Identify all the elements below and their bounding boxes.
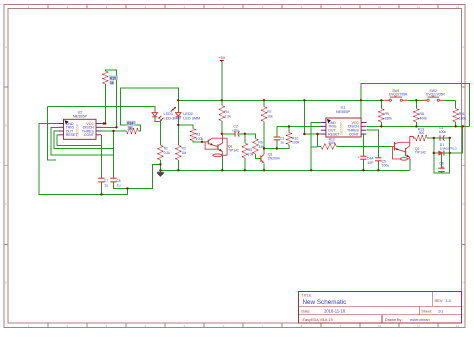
svg-text:R3: R3 <box>196 132 200 136</box>
junction at 105.3,123.5 <box>104 122 106 124</box>
svg-text:1N4007RLG: 1N4007RLG <box>440 146 458 150</box>
wire C7 column below CONT loop <box>100 146 102 179</box>
svg-text:1k: 1k <box>128 127 132 131</box>
wire top power rail <box>178 99 384 101</box>
capacitor C3 <box>274 136 280 138</box>
wire U1 THRES to C5 column <box>366 130 378 158</box>
wire D1 left vertical <box>434 138 439 153</box>
svg-text:R6: R6 <box>258 140 262 144</box>
svg-text:12: 12 <box>456 5 460 9</box>
resistor R10 <box>287 133 292 145</box>
wire C8 bottom lead <box>114 164 161 188</box>
wire R10 top lead <box>288 127 290 133</box>
svg-text:0.2k: 0.2k <box>164 151 171 155</box>
svg-text:R14: R14 <box>127 122 133 126</box>
junction at 178.3,170.3 <box>177 169 179 171</box>
svg-text:100k: 100k <box>292 141 300 145</box>
resistor R14 <box>126 129 138 134</box>
svg-text:1.0: 1.0 <box>446 298 452 303</box>
junction at 264,148.5 <box>263 147 265 149</box>
wire U1 TRIG row <box>277 126 323 128</box>
svg-text:10: 10 <box>378 324 382 328</box>
wire R5 top lead <box>244 134 246 143</box>
svg-text:CONT: CONT <box>349 132 360 136</box>
svg-text:A: A <box>462 45 464 49</box>
svg-text:2018-11-18: 2018-11-18 <box>324 309 346 314</box>
resistor R13 300 <box>415 136 427 141</box>
svg-text:RESET: RESET <box>328 132 341 136</box>
svg-text:EVQ22705R: EVQ22705R <box>389 93 408 97</box>
capacitor C7 <box>98 177 104 179</box>
junction at 101.4,194.5 <box>100 193 102 195</box>
junction at 317.5,134 <box>316 133 318 135</box>
wire R4 column from rail <box>221 100 223 105</box>
svg-text:C7: C7 <box>104 179 108 183</box>
wire R8 leads <box>415 100 417 108</box>
wire C3 bottom lead <box>276 140 278 149</box>
wire R12 feed vertical <box>318 134 322 147</box>
svg-text:EVQ22705R: EVQ22705R <box>426 93 445 97</box>
wire R3 bottom into Q1 base <box>193 141 204 142</box>
svg-text:2N2904: 2N2904 <box>268 156 280 160</box>
wire U2 DISCH stub extension <box>101 126 117 128</box>
junction at 304.4,100.3 <box>303 99 305 101</box>
resistor R1 <box>158 145 163 160</box>
wire R11 bottom lead <box>455 122 457 126</box>
svg-text:1u: 1u <box>104 183 108 187</box>
junction at 103.7,123.5 <box>103 122 105 124</box>
svg-text:300: 300 <box>419 131 425 135</box>
wire U1 GND row <box>311 123 323 171</box>
wire Q3 emitter to rail <box>263 164 265 171</box>
svg-text:R1: R1 <box>164 146 168 150</box>
wire U2 THRES row to R14 <box>101 130 126 132</box>
svg-text:1u: 1u <box>440 165 444 169</box>
svg-text:R15: R15 <box>110 76 116 80</box>
wire C5 bottom to rail <box>377 161 379 171</box>
ground symbol <box>157 170 164 176</box>
resistor R7 <box>262 107 267 122</box>
wire C6 box <box>434 153 450 173</box>
wire bypass loop up right <box>361 84 470 127</box>
resistor R5 <box>242 143 247 158</box>
junction at 178.3,124.9 <box>177 124 179 126</box>
wire R7 bottom to Q3 collector node <box>263 122 265 155</box>
junction at 455.7,126.4 <box>455 125 457 127</box>
junction at 264,170.3 <box>263 169 265 171</box>
svg-text:R9: R9 <box>385 112 389 116</box>
resistor R2 <box>176 145 181 160</box>
op-amp timer U2 NE555P <box>64 119 97 139</box>
svg-text:RESET: RESET <box>66 133 79 137</box>
svg-text:1M: 1M <box>182 151 187 155</box>
wire C2 row right to R6 top <box>239 134 255 139</box>
svg-text:TIP142: TIP142 <box>415 150 426 154</box>
svg-text:R11: R11 <box>459 112 465 116</box>
capacitor C6 <box>438 167 444 169</box>
svg-text:1k: 1k <box>110 81 114 85</box>
wire R9 bottom lead <box>380 122 382 126</box>
wire R2 bottom to rail <box>177 160 179 170</box>
junction at 221.8,100.3 <box>221 99 223 101</box>
wire Q2 emitter to rail <box>409 159 411 170</box>
power flag +5V <box>221 61 223 63</box>
capacitor C8 <box>110 177 116 179</box>
junction at 276.8,148.5 <box>276 147 278 149</box>
wire R12 link <box>311 146 317 148</box>
junction at 244.8,170.3 <box>244 169 246 171</box>
junction at 416.3,100.3 <box>415 99 417 101</box>
junction at 160.4,170.3 <box>159 169 161 171</box>
svg-text:LED 3MM: LED 3MM <box>183 116 200 120</box>
svg-text:REV:: REV: <box>435 298 444 303</box>
wire LED1 cathode step to R1 <box>155 117 161 145</box>
wire Q2 collector to R13 <box>414 137 416 139</box>
junction at 378.3,170.3 <box>377 169 379 171</box>
wire U2 VCC row to R15 bottom <box>101 84 105 124</box>
svg-text:Date:: Date: <box>302 309 311 313</box>
junction at 222.3,170.3 <box>221 169 223 171</box>
svg-text:1u: 1u <box>280 141 284 145</box>
resistor R6 <box>253 139 258 154</box>
transistor Q2 TIP142 <box>391 137 413 161</box>
junction at 264,100.3 <box>263 99 265 101</box>
svg-text:300k: 300k <box>328 141 336 145</box>
wire D1 right vertical <box>449 138 451 153</box>
resistor R11 <box>453 109 458 123</box>
svg-text:10: 10 <box>378 5 382 9</box>
junction at 381.3,126.4 <box>380 125 382 127</box>
svg-text:+5V: +5V <box>218 56 225 60</box>
resistor R15 <box>103 71 108 84</box>
LED LED1 <box>152 113 157 117</box>
op-amp timer U1 NE555P <box>326 118 361 137</box>
svg-text:R7: R7 <box>267 110 271 114</box>
svg-text:EasyEDA V5.8.19: EasyEDA V5.8.19 <box>303 318 333 322</box>
wire R7 column from rail <box>263 100 265 106</box>
wire C7 bottom to ground bus <box>100 182 102 195</box>
svg-text:Sheet:: Sheet: <box>421 309 432 313</box>
capacitor C1 <box>439 135 441 141</box>
svg-text:euler.chiran: euler.chiran <box>410 318 430 322</box>
junction at 433.8,138 <box>433 137 435 139</box>
transistor Q3 2N2904 <box>260 156 262 162</box>
wire top rail segment between switches <box>408 99 422 101</box>
svg-text:TITLE:: TITLE: <box>302 294 313 298</box>
junction at 178.3,100.3 <box>177 99 179 101</box>
junction at 449.7,138 <box>449 137 451 139</box>
junction at 462.7,126.4 <box>462 125 464 127</box>
junction at 304.4,134 <box>303 133 305 135</box>
diode D1 1N4007RLG <box>438 150 444 155</box>
wire R3 branch from LED2 column <box>178 125 193 129</box>
wire U1 RESET row <box>304 133 322 135</box>
svg-text:10k: 10k <box>267 115 273 119</box>
svg-text:180k: 180k <box>459 116 467 120</box>
svg-text:C8: C8 <box>116 179 120 183</box>
wire C6 column <box>440 153 442 168</box>
wire R15 top hook down to DISCH <box>105 70 116 127</box>
wire R6 bottom to Q3 base <box>255 154 261 159</box>
svg-text:10u: 10u <box>233 129 239 133</box>
wire +5V drop to top rail <box>221 62 223 100</box>
junction at 433.8,153 <box>433 152 435 154</box>
transistor Q1 TIP142 <box>221 134 223 138</box>
svg-text:Drawn By:: Drawn By: <box>385 318 403 322</box>
wire C8 column <box>113 131 115 178</box>
capacitor C2 <box>234 131 236 137</box>
capacitor C5 <box>375 157 381 159</box>
svg-text:12: 12 <box>456 324 460 328</box>
svg-text:A: A <box>5 45 7 49</box>
wire U2 area: GND pin to left vertical <box>39 124 128 195</box>
svg-text:1u: 1u <box>117 183 121 187</box>
switch SW2 EVQ22705R <box>422 99 427 101</box>
wire LED2 cathode to R2 <box>177 117 179 145</box>
wire C3 top to TRIG row <box>276 127 278 138</box>
wire out net left vertical <box>48 106 56 160</box>
svg-text:1/1: 1/1 <box>438 309 443 313</box>
resistor R12 300k <box>321 144 337 149</box>
wire R14 right lead wrap <box>120 88 178 131</box>
wire LED2 column anode <box>177 100 179 112</box>
svg-text:B: B <box>5 123 7 127</box>
resistor R8 <box>414 109 419 123</box>
junction at 363.4,170.3 <box>362 169 364 171</box>
wire right drop to D1 row <box>450 126 463 153</box>
svg-text:R2: R2 <box>182 146 186 150</box>
wire U2 OUT loop <box>54 131 114 149</box>
junction at 416.3,126.4 <box>415 125 417 127</box>
wire bottom ground rail <box>160 169 409 171</box>
resistor R3 <box>191 129 196 141</box>
wire Q1 emitter to rail <box>221 155 223 170</box>
svg-text:400k: 400k <box>420 116 428 120</box>
wire U2 RESET to CONT loop <box>57 135 101 146</box>
wire C2 row from R4 column <box>222 133 235 135</box>
junction at 221.8,133.8 <box>221 133 223 135</box>
svg-text:NE555P: NE555P <box>73 115 88 119</box>
wire C4A bottom to rail <box>362 159 364 170</box>
svg-text:New Schematic: New Schematic <box>303 299 347 306</box>
junction at 311.2,170.3 <box>310 169 312 171</box>
svg-text:180k: 180k <box>385 116 393 120</box>
switch SW1 EVQ22705R <box>384 99 389 101</box>
resistor R4 <box>219 106 224 122</box>
svg-text:11: 11 <box>417 5 420 9</box>
junction at 360.9,100.3 <box>360 99 362 101</box>
wire rail drop to U1 RESET row <box>303 100 305 134</box>
wire R5 bottom to rail <box>244 158 246 170</box>
junction at 127.5,188.5 <box>126 187 128 189</box>
junction at 381.3,100.3 <box>380 99 382 101</box>
wire long out net to LED1 <box>48 106 155 112</box>
wire R9 top lead <box>380 100 382 108</box>
junction at 116.5,127.3 <box>115 126 117 128</box>
junction at 160.4,164.4 <box>159 163 161 165</box>
wire R4 bottom to Q1 collector <box>221 121 223 134</box>
svg-text:100u: 100u <box>439 130 447 134</box>
svg-text:100k: 100k <box>196 137 204 141</box>
wire U2 TRIG loop <box>51 127 114 155</box>
LED LED2 <box>176 113 181 117</box>
junction at 449.7,153 <box>449 152 451 154</box>
wire R1 bottom to rail <box>159 160 161 170</box>
svg-text:10P: 10P <box>367 161 374 165</box>
junction at 244.8,133.8 <box>244 133 246 135</box>
wire top rail segment after SW2 <box>445 99 456 101</box>
svg-text:33k: 33k <box>258 145 264 149</box>
resistor R9 <box>379 109 384 123</box>
svg-text:R8: R8 <box>420 112 424 116</box>
wire R13 to C1 D1 block <box>427 137 450 139</box>
svg-text:TIP142: TIP142 <box>228 148 239 152</box>
svg-text:100u: 100u <box>382 164 390 168</box>
wire node row R7 C3 R10 bottoms <box>264 145 289 149</box>
wire R12 right lead to Q2 base <box>337 146 392 148</box>
svg-text:R5: R5 <box>248 148 252 152</box>
svg-text:NE555P: NE555P <box>340 121 344 134</box>
junction at 202,141.8 <box>201 141 203 143</box>
junction at 113.5,131 <box>112 130 114 132</box>
capacitor C4A <box>360 155 366 157</box>
wire R11 top lead from rail <box>455 100 457 108</box>
wire U1 CONT hook to C4A column <box>363 134 366 156</box>
svg-text:R4: R4 <box>224 110 228 114</box>
svg-text:+: + <box>358 155 360 159</box>
svg-text:1.2k: 1.2k <box>224 115 231 119</box>
svg-text:11: 11 <box>417 324 420 328</box>
svg-text:CONT: CONT <box>84 133 95 137</box>
title block <box>299 292 462 324</box>
junction at 289,126.5 <box>288 125 290 127</box>
svg-text:NE555P: NE555P <box>336 110 351 114</box>
wire U1 VCC drop from rail <box>361 100 367 122</box>
wire U1 DISCH row to resistor bottoms <box>366 125 469 127</box>
